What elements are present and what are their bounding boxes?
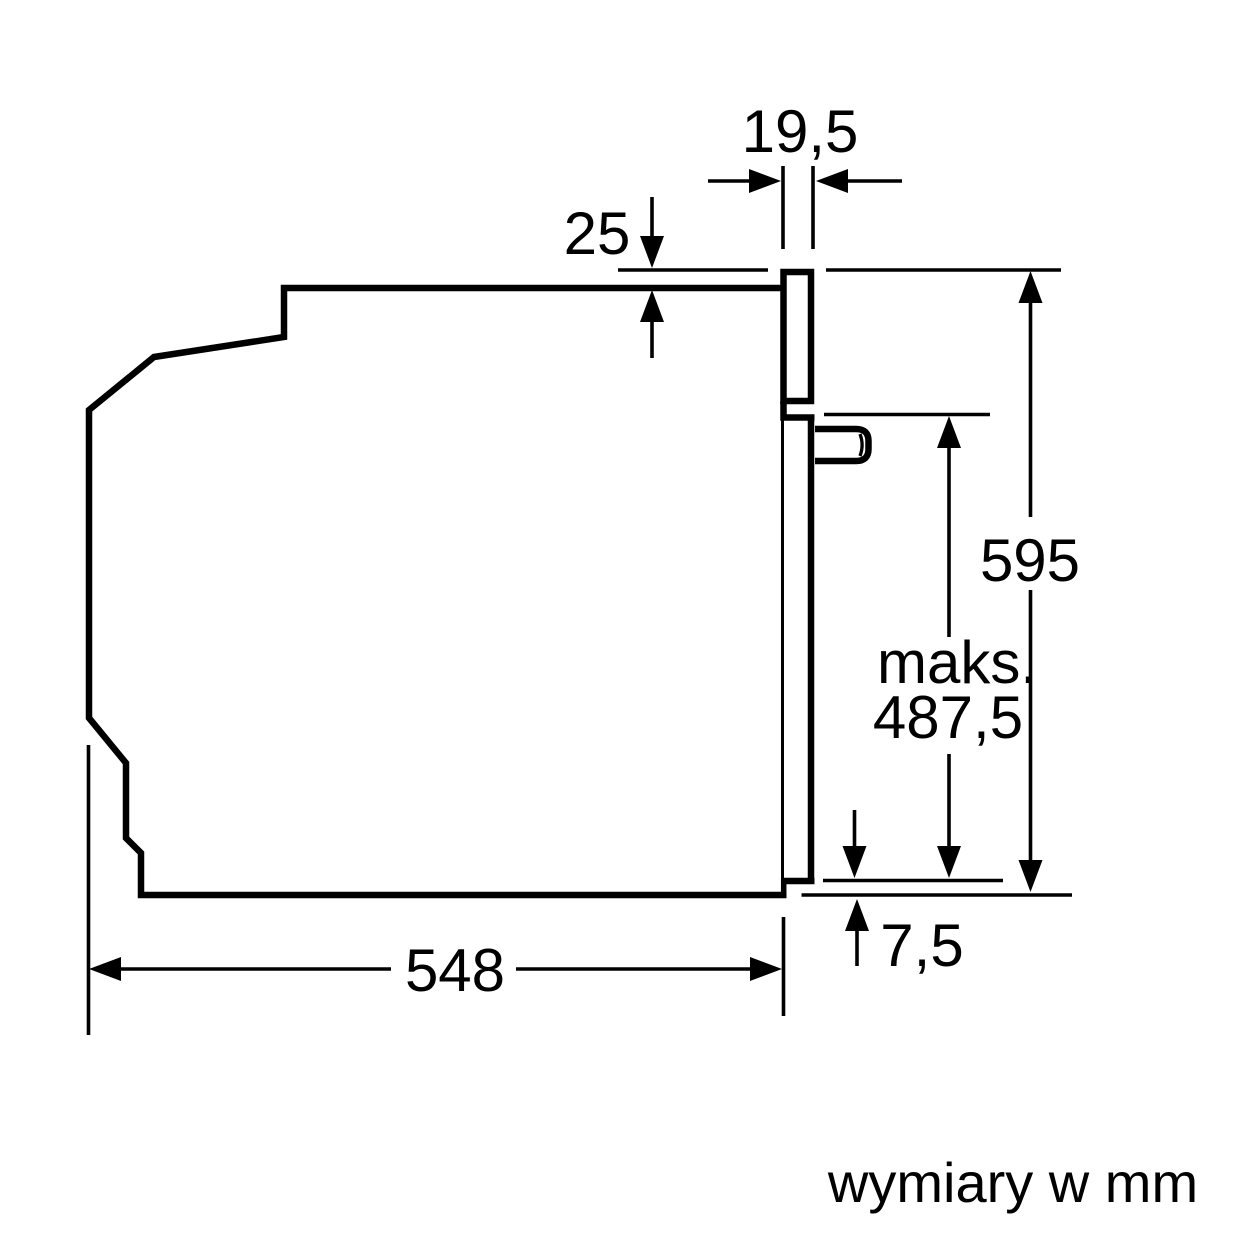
niche top reference line (left segment) <box>618 268 768 272</box>
oven door lower section front (right) edge <box>808 420 815 878</box>
oven door bottom edge <box>781 878 815 885</box>
maks 487,5 top extension line <box>824 413 990 417</box>
handle end cap highlight line <box>860 434 862 456</box>
svg-text:wymiary w mm: wymiary w mm <box>827 1151 1198 1214</box>
svg-text:25: 25 <box>564 200 631 267</box>
oven door step below upper section <box>784 401 815 418</box>
dimension 548 left extension line <box>87 745 91 1035</box>
dimension 19,5 right arrow <box>845 179 902 183</box>
oven door front panel (upper section) <box>784 272 812 401</box>
door back edge thick connector to body bottom <box>781 879 787 898</box>
dimension 25 upper arrow (down) <box>650 197 654 240</box>
dimension 595 line lower part with down arrow <box>1029 590 1033 864</box>
niche top reference line (right segment) <box>826 268 1061 272</box>
dimension 7,5 upper arrow (down) <box>853 810 857 846</box>
maks 487,5 bottom extension line <box>823 879 1003 883</box>
svg-text:548: 548 <box>405 937 505 1004</box>
oven door lower section back (left) edge <box>781 418 784 880</box>
dimension 487,5 line upper part with up arrow <box>947 445 951 637</box>
dimension 595 line upper part with up arrow <box>1029 300 1033 517</box>
dimension 25 lower arrow (up) <box>650 320 654 358</box>
dimension 487,5 line lower part with down arrow <box>947 754 951 848</box>
dimension 548 line with right arrow <box>516 967 755 971</box>
dimension 19,5 right extension line <box>811 166 815 249</box>
dimension 19,5 left extension line <box>781 166 785 249</box>
svg-text:487,5: 487,5 <box>873 684 1023 751</box>
svg-text:19,5: 19,5 <box>742 98 859 165</box>
dimension 19,5 left arrow <box>708 179 752 183</box>
svg-text:595: 595 <box>980 527 1080 594</box>
bottom reference line (under oven) <box>802 893 1073 897</box>
oven body outline <box>89 288 787 895</box>
svg-text:7,5: 7,5 <box>880 912 963 979</box>
dimension 548 line with left arrow <box>115 967 391 971</box>
dimension 7,5 lower arrow (up) <box>855 930 859 966</box>
door handle <box>815 429 869 461</box>
dimension 548 right extension line <box>782 917 786 1016</box>
